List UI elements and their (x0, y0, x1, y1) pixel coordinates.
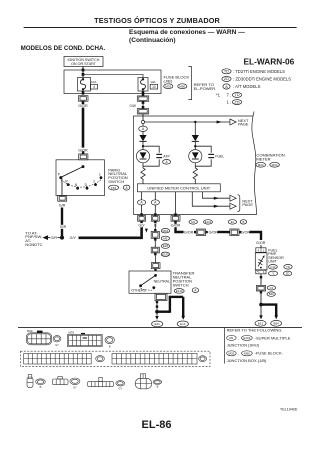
arrow to AT-PNP/SW (43, 235, 61, 240)
svg-text:7 :: 7 : (227, 92, 232, 97)
wire to ground junction (260, 291, 262, 316)
switch name TRANSFER NEUTRAL POSITION SWITCH (173, 271, 195, 288)
wire G/OR fuse1 to PNP switch (thick) (82, 108, 85, 148)
switch arm wire (61, 167, 83, 178)
svg-text:A: A (166, 160, 169, 164)
transfer switch box (129, 271, 171, 293)
wire into combination meter (142, 114, 144, 121)
wire resistor to control unit (142, 180, 144, 184)
svg-text:G/OR: G/OR (209, 230, 219, 234)
svg-text:E41: E41 (155, 322, 161, 326)
svg-text:ZD: ZD (286, 272, 290, 276)
svg-text:ON OR START: ON OR START (71, 62, 97, 66)
svg-text:M33: M33 (228, 352, 234, 356)
svg-text:*1: *1 (216, 92, 221, 97)
svg-text:M1: M1 (191, 220, 195, 224)
wire G/OR corner down (thick) (250, 232, 262, 240)
meter pin connector 2 (151, 213, 159, 224)
connector label oval M50 (178, 84, 187, 89)
connector label oval M33 (164, 84, 173, 89)
wire chain to transfer connector (155, 255, 157, 262)
connector meter side (137, 109, 148, 114)
bracket refer to EL-POWER (188, 67, 191, 100)
svg-text:A: A (194, 288, 197, 292)
connector 1 above PNP switch (79, 154, 88, 160)
title underline rule (24, 27, 297, 29)
svg-text:PAGE: PAGE (238, 122, 249, 127)
fuse block J/B outline (64, 70, 161, 94)
pin below connector (82, 101, 85, 104)
node split fuel (194, 145, 196, 147)
svg-text:EL-POWER.: EL-POWER. (194, 86, 217, 91)
ground connector oval right fuel (271, 320, 282, 326)
unified meter control unit box (137, 184, 220, 192)
text block divider (223, 328, 225, 364)
chain label oval E28 (161, 244, 169, 248)
svg-text:,: , (238, 351, 239, 356)
wire meter top run to next page (145, 121, 230, 123)
svg-text:(Continuación): (Continuación) (129, 37, 176, 44)
bypass branch with gauge symbol FUEL (195, 146, 214, 166)
connector view R3c 7pin (88, 377, 114, 386)
oval A marker at ATP (163, 160, 171, 165)
chain connector M63 (151, 229, 159, 241)
svg-text:G/Y: G/Y (138, 223, 145, 227)
ground connector oval right (177, 321, 188, 327)
label circle B (240, 220, 246, 224)
connector above transfer switch (151, 263, 160, 271)
node dot transfer ground (156, 305, 158, 307)
contact P (58, 173, 63, 180)
connector E1 (228, 229, 242, 236)
svg-text:UNIFIED METER CONTROL UNIT: UNIFIED METER CONTROL UNIT (147, 185, 210, 190)
svg-text:E1: E1 (231, 220, 235, 224)
connector view R3d label oval (153, 380, 162, 389)
connector view C1 label oval (53, 336, 61, 347)
connector label oval E110 (174, 289, 184, 294)
ground arrow right (181, 316, 185, 320)
svg-text:NEUTRAL: NEUTRAL (154, 279, 170, 283)
wire right branch down (194, 122, 196, 135)
variable resistor symbol (258, 255, 265, 268)
SMJ grid B (112, 354, 197, 365)
svg-text:B: B (109, 346, 111, 349)
legend circle A (223, 84, 230, 89)
svg-text:ZD: ZD (224, 76, 229, 81)
thick drop to ground right (182, 297, 184, 317)
wire G/Y junction to meter (thick) (79, 237, 142, 240)
svg-text:M33: M33 (165, 84, 171, 88)
svg-text:M63: M63 (163, 229, 169, 233)
svg-text:JUNCTION BOX (J/B): JUNCTION BOX (J/B) (227, 358, 267, 363)
resistor R1 (141, 168, 145, 180)
label oval E1 (228, 220, 236, 224)
legend note 1 ZD (227, 99, 242, 104)
wire between stacked connectors (142, 104, 144, 109)
wire pin2 down to chain (154, 224, 156, 232)
wire transfer ground left (156, 301, 158, 316)
legend oval ZD (222, 76, 231, 81)
note ovals M33 M50 FUSE BLOCK (227, 351, 284, 356)
wire pin2 below control unit (154, 192, 156, 213)
chain connector E28 (151, 247, 159, 255)
svg-text:B20: B20 (269, 292, 274, 296)
transfer contact b (152, 286, 155, 289)
svg-text:G/R: G/R (60, 225, 67, 229)
wire contact P down (61, 179, 63, 196)
label NEXT PAGE right (242, 198, 253, 207)
transfer switch pivot (154, 274, 157, 277)
pin below fuse F1 (82, 91, 85, 95)
wire LED1 to resistor (142, 163, 144, 168)
svg-text:10A: 10A (150, 80, 155, 84)
dashed contact link (141, 288, 154, 290)
svg-text:M20: M20 (27, 329, 33, 333)
fuse block label FUSE BLOCK (J/B) (164, 75, 190, 84)
contact 1 (99, 173, 102, 179)
meter pin connector 1 (138, 213, 146, 224)
ground arrow left (155, 316, 159, 320)
svg-text:UNIT: UNIT (268, 259, 277, 263)
svg-text:C13: C13 (270, 265, 276, 269)
svg-text:B: B (40, 386, 42, 389)
svg-text:E28: E28 (163, 244, 168, 248)
pin above fuse F2 connector (142, 91, 145, 96)
svg-text:PAGE: PAGE (242, 202, 253, 207)
contact D (85, 183, 89, 190)
chain label oval E105 (161, 252, 169, 256)
svg-text:GY: GY (118, 387, 122, 390)
arrow marker on top run (217, 121, 222, 124)
label oval ZD right (283, 271, 291, 276)
svg-text:A: A (225, 84, 228, 89)
connector view C1 oval 12pin (26, 331, 51, 345)
connector view C2 label oval (105, 336, 114, 348)
svg-text:R: R (65, 179, 68, 183)
svg-text:*1: *1 (272, 272, 275, 276)
connector view C2 rect 16pin (68, 333, 103, 347)
ground arrow left fuel (259, 315, 263, 319)
note TO AT-PNP/SW AT-NONDTC (25, 230, 42, 246)
svg-text:P: P (58, 173, 60, 177)
dashed contact arc (61, 180, 101, 187)
wire next page B from control unit (192, 192, 236, 209)
ignition switch box (64, 57, 103, 67)
fuel level sensor unit box (255, 253, 267, 270)
wire pin3 below control unit (175, 192, 177, 213)
bracket next page pair (237, 195, 239, 212)
wire next page A from control unit (202, 192, 236, 201)
svg-text:F16: F16 (111, 186, 117, 190)
arrow marker on G/Y riser (145, 229, 148, 233)
svg-text:G/OR: G/OR (171, 223, 181, 227)
svg-text:M50: M50 (244, 352, 250, 356)
svg-text:REFER TO THE FOLLOWING.: REFER TO THE FOLLOWING. (227, 328, 283, 333)
svg-text:JUNCTION (SMJ): JUNCTION (SMJ) (227, 342, 260, 347)
svg-text:MODELOS DE COND. DCHA.: MODELOS DE COND. DCHA. (21, 45, 106, 52)
svg-text:B: B (157, 386, 159, 389)
bypass branch with gauge symbol ATP (143, 146, 162, 166)
svg-text:4: 4 (258, 248, 260, 252)
label COMBINATION METER (256, 152, 284, 161)
node dot on wire (260, 276, 262, 278)
node junction transfer grounds (155, 310, 159, 314)
thick link to right ground (261, 305, 276, 316)
connector view R3c label oval (116, 381, 125, 391)
svg-text:M34: M34 (272, 163, 278, 167)
label NEXT PAGE top (238, 118, 249, 127)
ground connector oval left fuel (255, 320, 266, 326)
connector view R3b 4pin (52, 377, 68, 385)
svg-text:10: 10 (152, 85, 156, 89)
note REFER TO EL-POWER (194, 82, 217, 91)
connector C2 (256, 285, 265, 293)
svg-text:E101: E101 (205, 220, 212, 224)
wire pin1 below control unit (141, 192, 143, 213)
svg-text:B13: B13 (258, 322, 264, 326)
connector M below fuse F2 (137, 96, 148, 101)
fuse F1 10A (78, 78, 91, 92)
node junction on fuse block edge (82, 69, 85, 72)
contact N (75, 183, 79, 190)
svg-text:G/OR: G/OR (184, 230, 194, 234)
pin node above meter connector (142, 106, 145, 109)
svg-text:EL-WARN-06: EL-WARN-06 (244, 57, 295, 67)
svg-text:M1: M1 (229, 336, 233, 340)
thick right leg up (169, 297, 171, 313)
wire fuel unit down (260, 274, 262, 286)
wire diode to LED1 (142, 141, 144, 149)
node split left branch (142, 145, 144, 147)
warning lamp LED2 (189, 150, 202, 163)
label oval B20 (267, 292, 275, 296)
SMJ grid A (24, 354, 92, 365)
svg-text:M33: M33 (69, 331, 75, 335)
headers placeholder (21, 16, 297, 66)
terminal circle left branch (141, 120, 144, 123)
fuel unit pin box bottom (256, 270, 266, 274)
svg-text:(J/B): (J/B) (164, 79, 173, 84)
node junction on bus (82, 73, 85, 76)
legend note *1 7 TD (216, 92, 242, 97)
svg-text::: : (121, 185, 122, 190)
svg-text:-SUPER MULTIPLE: -SUPER MULTIPLE (255, 335, 291, 340)
svg-text:E105: E105 (162, 252, 169, 256)
svg-text:Esquema de conexiones — WARN —: Esquema de conexiones — WARN — (129, 29, 245, 36)
chain label oval M63 (161, 229, 169, 233)
svg-text:ZD: ZD (234, 99, 239, 104)
svg-text:TD: TD (224, 69, 229, 74)
connector view R3a label oval (36, 379, 46, 389)
wire ignition to fuse block (82, 67, 84, 79)
svg-text:TD: TD (234, 92, 239, 97)
SMJ dashed box (21, 351, 211, 366)
svg-text:G/Y: G/Y (70, 236, 77, 240)
PNP switch box (56, 160, 105, 196)
contact 2 (93, 179, 97, 186)
svg-text:G/OR: G/OR (78, 104, 88, 108)
svg-text:A: A (126, 186, 129, 190)
pin node between connectors (142, 101, 145, 104)
svg-text:,: , (267, 163, 268, 168)
combination meter outline with torn right edge (134, 112, 257, 215)
resistor R2 (193, 168, 197, 180)
svg-text:: TD27Ti ENGINE MODELS: : TD27Ti ENGINE MODELS (233, 69, 285, 74)
svg-text:1: 1 (99, 173, 101, 177)
svg-text:B: B (242, 220, 244, 224)
diode D2 (192, 135, 199, 141)
svg-text:SWITCH: SWITCH (173, 282, 189, 287)
svg-text:M5: M5 (163, 237, 167, 241)
SMJ label oval B (199, 356, 207, 362)
legend oval TD (222, 69, 231, 74)
note ovals M1 E101 SUPER MULTIPLE (227, 335, 291, 340)
switch pivot node (82, 165, 85, 168)
pin into PNP box (82, 151, 84, 154)
fuse F1 number box 4 (91, 84, 98, 89)
svg-text:B54: B54 (274, 322, 280, 326)
svg-text:: A/T MODELS: : A/T MODELS (233, 84, 261, 89)
svg-text:,: , (238, 336, 239, 341)
wire G/R down to junction (61, 208, 63, 238)
svg-text:GY: GY (55, 344, 59, 347)
transfer contact a (139, 284, 142, 287)
svg-text:A: A (142, 127, 145, 131)
wire resistor2 to control unit (194, 180, 196, 184)
wire to diode 1 (142, 132, 144, 136)
svg-text:E13: E13 (180, 322, 186, 326)
wire chain mid (154, 241, 156, 248)
contact R (65, 179, 69, 186)
label oval star1 (268, 271, 277, 276)
ground arrow right fuel (274, 315, 278, 319)
svg-text:G/R: G/R (59, 203, 66, 207)
label oval E101 (204, 220, 213, 224)
switch name PARK/NEUTRAL POSITION SWITCH (108, 167, 128, 184)
node junction G/R G/Y (60, 236, 64, 240)
svg-text:M50: M50 (179, 84, 185, 88)
connector view R3d oval 6pin (135, 374, 152, 389)
svg-text:TD: TD (286, 265, 290, 269)
svg-text:SWITCH: SWITCH (108, 179, 124, 184)
connector M below fuse F1 (78, 96, 88, 102)
svg-text:*1: *1 (257, 270, 260, 274)
label oval M1 (189, 220, 197, 224)
fuse F2 number box 10 (150, 84, 157, 89)
SMJ label oval A (96, 356, 105, 362)
fuel unit connector top (256, 248, 266, 253)
fuse F2 10A (138, 78, 148, 92)
warning lamp LED1 (136, 150, 149, 163)
svg-text:4: 4 (93, 85, 95, 89)
connector label ovals M24 M34 (256, 162, 280, 167)
svg-text:METER: METER (256, 156, 270, 161)
thick link junction to right leg (157, 311, 170, 313)
unit name FUEL PMP SENSOR UNIT (268, 249, 284, 264)
wire G/OR mid (thick) (218, 231, 228, 233)
svg-text:E101: E101 (243, 336, 250, 340)
svg-text:GY: GY (73, 386, 77, 389)
svg-text:G/OR: G/OR (241, 230, 251, 234)
svg-text:OTHERS: OTHERS (131, 289, 146, 293)
svg-text:1: 1 (263, 248, 265, 252)
svg-text:FUEL: FUEL (215, 155, 224, 159)
oval A marker pin2 (151, 200, 159, 205)
label oval TD right (284, 265, 292, 270)
bottom section separator rule (18, 327, 302, 329)
meter pin connector 3 (171, 213, 180, 224)
wire into fuel unit connector (260, 245, 262, 248)
svg-text:C2: C2 (270, 286, 274, 290)
label oval C13 (269, 265, 278, 270)
oval A marker pin1 (138, 200, 146, 205)
ground connector oval left (152, 321, 163, 327)
svg-text:G/OR: G/OR (256, 241, 266, 245)
svg-text:EL-86: EL-86 (142, 419, 172, 431)
connector view R3a vertical (27, 375, 33, 388)
svg-text:M24: M24 (258, 163, 264, 167)
connector label oval F16 and circle A (109, 185, 130, 190)
svg-text:10A: 10A (91, 80, 96, 84)
thick top bar (169, 296, 184, 298)
label oval C2 (267, 286, 275, 290)
svg-text:G/W: G/W (130, 104, 136, 108)
svg-text:YEL1940D: YEL1940D (280, 407, 298, 411)
svg-text:-FUSE BLOCK-: -FUSE BLOCK- (255, 351, 284, 356)
node split right branch (194, 121, 196, 123)
svg-text:TESTIGOS ÓPTICOS Y ZUMBADOR: TESTIGOS ÓPTICOS Y ZUMBADOR (94, 16, 220, 25)
connector below transfer switch (155, 293, 167, 303)
svg-text:ATP: ATP (163, 155, 170, 159)
svg-text:NONDTC: NONDTC (25, 242, 42, 247)
svg-text:E110: E110 (176, 289, 183, 293)
node junction fuel grounds (259, 303, 263, 307)
svg-text:: ZD30DDTi ENGINE MODELS: : ZD30DDTi ENGINE MODELS (233, 77, 291, 82)
transfer switch arm (141, 275, 156, 285)
connector below PNP switch (58, 196, 67, 202)
svg-text:N: N (75, 183, 78, 187)
connector view R3b label oval (70, 378, 80, 389)
svg-text:1 :: 1 : (227, 100, 232, 105)
SMJ connector M1 (194, 229, 208, 236)
circle marker B (192, 288, 198, 293)
diode D1 (139, 135, 146, 141)
wire G/Y riser to meter pin (thick) (140, 227, 143, 240)
wire LED2 to resistor2 (194, 163, 196, 168)
wire G/OR pin3 drop (thick) (176, 227, 184, 232)
oval A marker left branch (139, 124, 148, 132)
svg-text:G/R: G/R (51, 236, 58, 240)
wire diode2 to LED2 (194, 141, 196, 149)
chain label oval M5 (161, 236, 169, 240)
svg-text:2: 2 (93, 179, 95, 183)
wire internal bus to fuse 2 (83, 74, 143, 78)
next page triangle top (230, 119, 236, 125)
